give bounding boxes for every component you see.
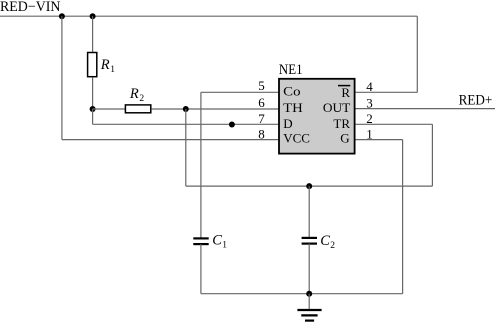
svg-text:2: 2	[139, 94, 144, 104]
svg-text:R: R	[129, 86, 139, 102]
svg-text:1: 1	[110, 65, 115, 75]
ground	[308, 294, 310, 310]
junction B on VIN rail	[90, 13, 96, 19]
wire TR drop x=432.4	[431, 124, 433, 186]
junction C	[90, 106, 96, 112]
svg-text:4: 4	[366, 79, 373, 94]
wire pin4 stub	[355, 91, 418, 93]
svg-text:TH: TH	[283, 100, 303, 115]
wire node C down to D row	[92, 109, 94, 124]
wire TH row R2 to IC pin6	[151, 108, 279, 110]
wire G drop x=402.6	[402, 140, 404, 294]
resistor R1	[88, 53, 97, 77]
svg-text:R: R	[100, 57, 110, 73]
wire G pin1 stub	[355, 139, 403, 141]
junction F on mid rail	[306, 183, 312, 189]
svg-text:VCC: VCC	[283, 130, 310, 145]
wire right drop to pin4 x=417	[416, 16, 418, 92]
junction D on TH row	[183, 106, 189, 112]
svg-text:R: R	[341, 85, 350, 100]
capacitor C1	[193, 237, 208, 239]
wire bottom rail y=293.7	[201, 293, 403, 295]
resistor R2	[125, 105, 150, 113]
wire node D down x=185.8	[185, 109, 187, 186]
junction A on VIN rail	[59, 13, 65, 19]
wire pin5 Co stub	[201, 91, 279, 93]
svg-text:RED−VIN: RED−VIN	[0, 0, 61, 15]
wire D pin7 row y=124.3	[93, 123, 279, 125]
svg-text:8: 8	[258, 126, 265, 141]
svg-text:G: G	[340, 130, 349, 145]
junction G on bottom rail	[306, 291, 312, 297]
svg-text:2: 2	[330, 241, 335, 251]
wire F down to C2	[308, 186, 310, 237]
svg-text:6: 6	[258, 95, 265, 110]
svg-text:C: C	[212, 232, 222, 248]
wire TR pin2 stub	[355, 123, 433, 125]
svg-text:C: C	[320, 233, 330, 249]
junction E on D row	[229, 122, 235, 128]
svg-text:RED+: RED+	[459, 93, 493, 109]
capacitor C2	[302, 237, 317, 239]
op-amp U1 IC NE1 body	[279, 79, 355, 154]
wire top rail VIN y=16	[0, 15, 417, 17]
svg-text:D: D	[283, 116, 292, 131]
wire Co down to C1	[200, 92, 202, 238]
svg-text:1: 1	[366, 126, 373, 141]
wire VCC pin8 y=139.6	[62, 139, 279, 141]
svg-text:Co: Co	[283, 84, 300, 99]
wire left branch down x=62	[61, 16, 63, 139]
wire C2 bottom to ground rail	[308, 244, 310, 294]
svg-text:5: 5	[258, 78, 265, 93]
svg-text:TR: TR	[333, 116, 350, 131]
svg-text:NE1: NE1	[279, 62, 303, 78]
wire mid rail y=186.1	[186, 185, 433, 187]
svg-text:1: 1	[222, 240, 227, 250]
wire TH row left segment to R2	[93, 108, 125, 110]
wire R1 bottom to node C	[92, 77, 94, 109]
svg-text:7: 7	[258, 111, 265, 126]
wire OUT pin3 to RED+	[355, 108, 495, 110]
svg-text:OUT: OUT	[323, 100, 350, 115]
wire C1 bottom to ground rail	[200, 244, 202, 294]
wire down to R1 top	[92, 16, 94, 52]
svg-text:2: 2	[366, 111, 373, 126]
svg-text:3: 3	[366, 95, 373, 110]
